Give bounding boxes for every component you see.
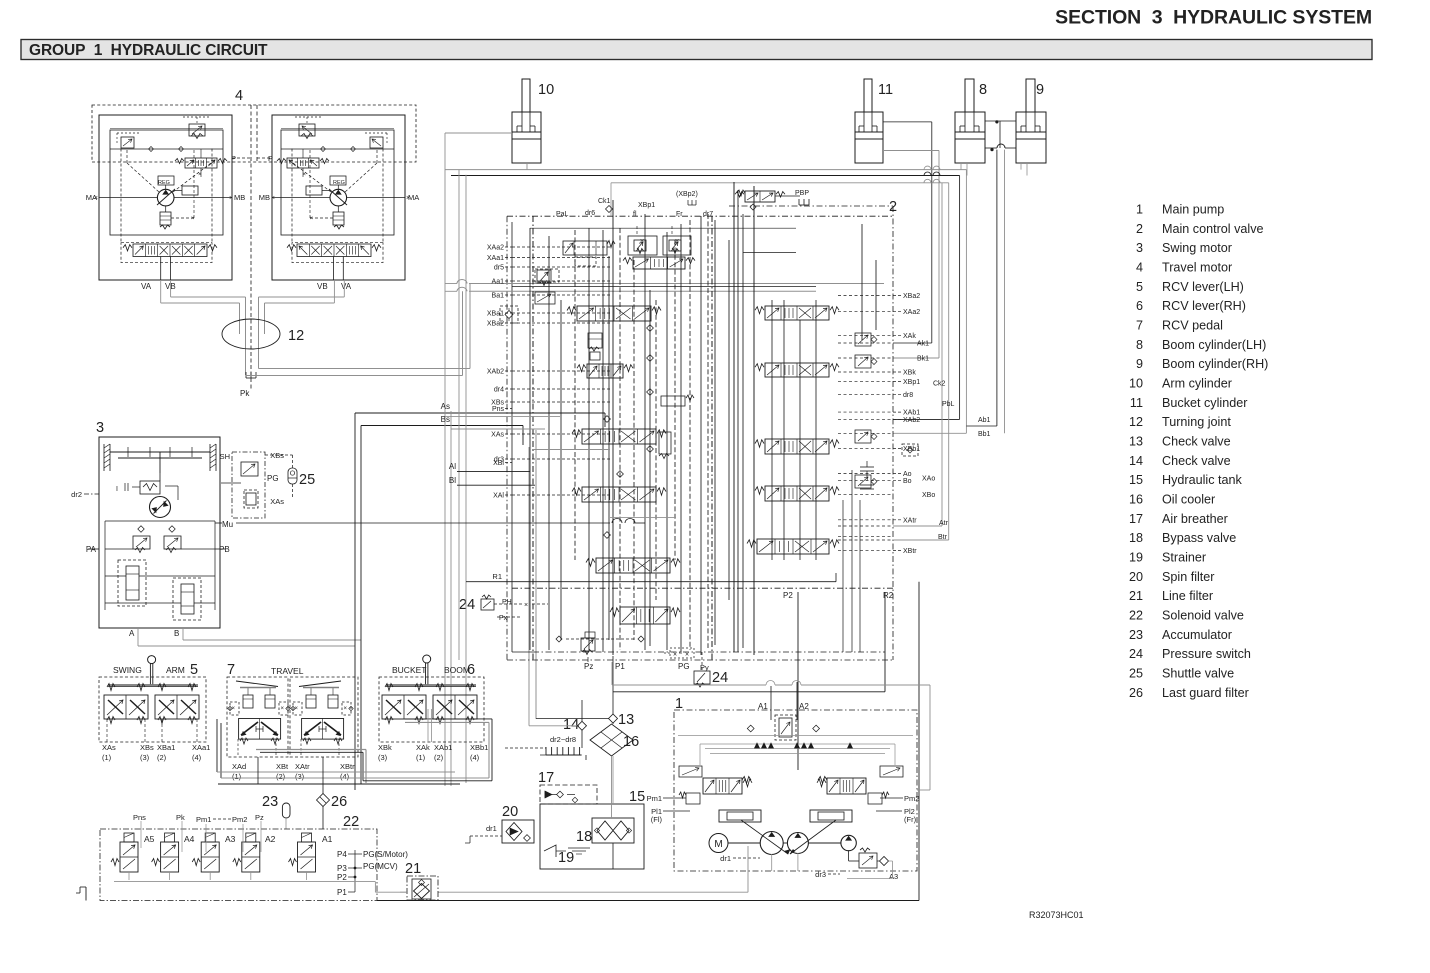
svg-text:Atr: Atr <box>939 520 949 527</box>
svg-text:MB: MB <box>234 193 245 202</box>
svg-text:5: 5 <box>1136 280 1143 294</box>
svg-text:24: 24 <box>712 670 728 686</box>
svg-text:(3): (3) <box>295 772 305 781</box>
svg-text:7: 7 <box>227 662 235 678</box>
svg-text:MA: MA <box>86 193 97 202</box>
svg-text:Last guard filter: Last guard filter <box>1162 686 1249 700</box>
svg-text:(3): (3) <box>378 753 388 762</box>
svg-text:XBb1: XBb1 <box>470 743 488 752</box>
svg-text:Oil cooler: Oil cooler <box>1162 492 1215 506</box>
svg-text:Pz: Pz <box>584 662 593 671</box>
svg-text:VA: VA <box>141 282 152 291</box>
svg-text:26: 26 <box>331 794 347 810</box>
svg-text:R32073HC01: R32073HC01 <box>1029 910 1084 920</box>
svg-text:As: As <box>441 402 450 411</box>
svg-text:I: I <box>116 486 118 493</box>
svg-text:(4): (4) <box>340 772 350 781</box>
svg-text:Strainer: Strainer <box>1162 550 1206 564</box>
svg-text:18: 18 <box>1129 531 1143 545</box>
svg-text:A1: A1 <box>322 834 333 844</box>
svg-text:×: × <box>675 238 679 245</box>
svg-text:Main control valve: Main control valve <box>1162 222 1264 236</box>
svg-text:REG: REG <box>333 180 345 186</box>
svg-text:XAk: XAk <box>903 333 916 340</box>
svg-text:XAtr: XAtr <box>903 517 917 524</box>
svg-text:SWING: SWING <box>113 665 142 675</box>
svg-text:4: 4 <box>1136 260 1143 274</box>
svg-text:fl: fl <box>633 211 637 218</box>
svg-text:P: P <box>268 154 273 163</box>
svg-text:23: 23 <box>1129 628 1143 642</box>
svg-text:XBl: XBl <box>493 460 504 467</box>
svg-text:Boom cylinder(RH): Boom cylinder(RH) <box>1162 357 1268 371</box>
svg-text:XBa2: XBa2 <box>903 293 920 300</box>
svg-text:XAb2: XAb2 <box>903 417 920 424</box>
svg-text:Solenoid valve: Solenoid valve <box>1162 608 1244 622</box>
svg-text:22: 22 <box>1129 608 1143 622</box>
svg-text:21: 21 <box>1129 589 1143 603</box>
svg-text:12: 12 <box>1129 415 1143 429</box>
svg-text:(4): (4) <box>470 753 480 762</box>
svg-text:Px: Px <box>499 615 508 622</box>
svg-text:24: 24 <box>459 597 475 613</box>
svg-text:XAl: XAl <box>493 493 504 500</box>
svg-text:15: 15 <box>629 789 645 805</box>
svg-text:Mu: Mu <box>222 520 233 529</box>
svg-text:Ck2: Ck2 <box>933 381 946 388</box>
svg-text:A3: A3 <box>889 872 898 881</box>
svg-text:Main pump: Main pump <box>1162 203 1224 217</box>
svg-text:25: 25 <box>1129 666 1143 680</box>
svg-text:Pm2: Pm2 <box>232 815 247 824</box>
svg-text:XAk: XAk <box>416 743 430 752</box>
svg-text:PbL: PbL <box>942 401 955 408</box>
svg-text:14: 14 <box>1129 454 1143 468</box>
svg-text:(Fr): (Fr) <box>904 815 917 824</box>
svg-text:Ak1: Ak1 <box>917 341 929 348</box>
svg-text:P4: P4 <box>337 850 347 859</box>
svg-text:26: 26 <box>1129 686 1143 700</box>
svg-text:P3: P3 <box>337 864 347 873</box>
svg-text:Pm1: Pm1 <box>196 815 211 824</box>
svg-text:BUCKET: BUCKET <box>392 665 426 675</box>
svg-text:BOOM: BOOM <box>444 665 470 675</box>
svg-text:XAa1: XAa1 <box>192 743 210 752</box>
svg-text:SECTION 3 HYDRAULIC SYSTEM: SECTION 3 HYDRAULIC SYSTEM <box>1055 7 1372 29</box>
svg-text:Pk: Pk <box>176 813 185 822</box>
svg-text:XBtr: XBtr <box>340 762 355 771</box>
svg-text:Hydraulic tank: Hydraulic tank <box>1162 473 1242 487</box>
svg-text:Ab1: Ab1 <box>978 417 991 424</box>
svg-text:XAs: XAs <box>491 432 504 439</box>
svg-text:19: 19 <box>1129 550 1143 564</box>
svg-text:Line filter: Line filter <box>1162 589 1213 603</box>
svg-text:A: A <box>129 629 135 638</box>
svg-text:Ck1: Ck1 <box>598 198 611 205</box>
svg-text:XAs: XAs <box>102 743 116 752</box>
svg-text:17: 17 <box>538 770 554 786</box>
svg-text:8: 8 <box>979 82 987 98</box>
svg-text:(3): (3) <box>140 753 150 762</box>
svg-text:Pressure switch: Pressure switch <box>1162 647 1251 661</box>
svg-text:XAs: XAs <box>270 497 284 506</box>
svg-text:P: P <box>231 154 236 163</box>
svg-text:PG: PG <box>267 474 279 483</box>
svg-text:XBa1: XBa1 <box>487 311 504 318</box>
svg-text:×: × <box>191 216 195 222</box>
svg-text:Ba1: Ba1 <box>492 293 505 300</box>
svg-text:16: 16 <box>623 734 639 750</box>
svg-text:XBp1: XBp1 <box>903 379 920 386</box>
svg-text:Pm2: Pm2 <box>904 794 919 803</box>
svg-text:dr8: dr8 <box>903 392 913 399</box>
svg-text:20: 20 <box>502 804 518 820</box>
svg-text:XBk: XBk <box>903 370 916 377</box>
svg-text:Fr: Fr <box>676 211 683 218</box>
svg-text:×: × <box>673 652 677 659</box>
svg-text:Pm1: Pm1 <box>647 794 662 803</box>
svg-text:(1): (1) <box>232 772 242 781</box>
svg-text:(1): (1) <box>416 753 426 762</box>
svg-text:×: × <box>229 195 233 202</box>
svg-text:×: × <box>685 652 689 659</box>
svg-text:22: 22 <box>343 814 359 830</box>
svg-text:XAo: XAo <box>922 475 935 482</box>
svg-text:9: 9 <box>1136 357 1143 371</box>
svg-text:dr7: dr7 <box>703 211 713 218</box>
svg-text:A2: A2 <box>799 702 809 711</box>
svg-text:19: 19 <box>558 850 574 866</box>
svg-text:12: 12 <box>288 328 304 344</box>
svg-text:GROUP 1 HYDRAULIC CIRCUIT: GROUP 1 HYDRAULIC CIRCUIT <box>29 42 268 59</box>
svg-text:A2: A2 <box>265 834 276 844</box>
svg-text:P1: P1 <box>615 662 625 671</box>
svg-text:PA: PA <box>86 545 97 554</box>
svg-text:XAtr: XAtr <box>295 762 310 771</box>
svg-text:Pns: Pns <box>133 813 146 822</box>
svg-text:dr1: dr1 <box>720 854 731 863</box>
svg-text:A1: A1 <box>758 702 768 711</box>
svg-text:MA: MA <box>408 193 419 202</box>
svg-text:A5: A5 <box>144 834 155 844</box>
svg-text:Btr: Btr <box>938 534 948 541</box>
svg-text:×: × <box>344 706 348 712</box>
svg-text:dr2~dr8: dr2~dr8 <box>550 735 576 744</box>
svg-text:Arm cylinder: Arm cylinder <box>1162 376 1232 390</box>
svg-text:8: 8 <box>1136 338 1143 352</box>
svg-text:XAb1: XAb1 <box>434 743 452 752</box>
svg-text:XAb1: XAb1 <box>903 410 920 417</box>
svg-text:Accumulator: Accumulator <box>1162 628 1232 642</box>
svg-text:XAa1: XAa1 <box>487 255 504 262</box>
svg-text:R2: R2 <box>883 591 894 600</box>
svg-text:3: 3 <box>96 420 104 436</box>
svg-text:Al: Al <box>449 462 456 471</box>
svg-text:Swing motor: Swing motor <box>1162 241 1232 255</box>
svg-text:PG(MCV): PG(MCV) <box>363 862 398 871</box>
svg-text:XAa2: XAa2 <box>903 309 920 316</box>
svg-text:Check valve: Check valve <box>1162 434 1231 448</box>
svg-text:TRAVEL: TRAVEL <box>271 666 304 676</box>
svg-text:Bk1: Bk1 <box>917 356 929 363</box>
svg-text:dr2: dr2 <box>71 490 82 499</box>
svg-text:(XBp2): (XBp2) <box>676 191 698 198</box>
svg-text:P2: P2 <box>337 873 347 882</box>
svg-text:dr3: dr3 <box>815 870 826 879</box>
svg-text:XBa2: XBa2 <box>487 321 504 328</box>
svg-text:17: 17 <box>1129 512 1143 526</box>
svg-text:Pk: Pk <box>240 389 250 398</box>
svg-text:(2): (2) <box>434 753 444 762</box>
svg-text:P1: P1 <box>337 888 347 897</box>
svg-text:Bucket cylinder: Bucket cylinder <box>1162 396 1247 410</box>
svg-text:REG: REG <box>158 180 170 186</box>
svg-text:B: B <box>174 629 179 638</box>
svg-text:ARM: ARM <box>166 665 185 675</box>
svg-text:×: × <box>271 195 275 202</box>
svg-text:Turning joint: Turning joint <box>1162 415 1231 429</box>
svg-text:4: 4 <box>235 88 243 104</box>
svg-text:Travel motor: Travel motor <box>1162 260 1232 274</box>
svg-text:7: 7 <box>1136 318 1143 332</box>
svg-text:A3: A3 <box>225 834 236 844</box>
svg-text:Ao: Ao <box>903 471 912 478</box>
svg-text:25: 25 <box>299 472 315 488</box>
svg-text:Spin filter: Spin filter <box>1162 570 1215 584</box>
svg-text:Bl: Bl <box>449 476 456 485</box>
svg-text:×: × <box>281 706 285 712</box>
svg-text:XBs: XBs <box>140 743 154 752</box>
svg-text:SH: SH <box>220 452 230 461</box>
svg-text:3: 3 <box>1136 241 1143 255</box>
svg-text:20: 20 <box>1129 570 1143 584</box>
svg-text:P2: P2 <box>783 591 793 600</box>
svg-text:16: 16 <box>1129 492 1143 506</box>
svg-text:1: 1 <box>1136 203 1143 217</box>
svg-text:Air breather: Air breather <box>1162 512 1228 526</box>
svg-text:23: 23 <box>262 794 278 810</box>
svg-text:Bb1: Bb1 <box>978 431 991 438</box>
svg-text:dr1: dr1 <box>486 824 497 833</box>
svg-text:Pz: Pz <box>255 813 264 822</box>
svg-text:XBtr: XBtr <box>903 548 917 555</box>
svg-text:dr4: dr4 <box>494 387 504 394</box>
svg-text:RCV lever(RH): RCV lever(RH) <box>1162 299 1246 313</box>
svg-text:Aa1: Aa1 <box>492 279 505 286</box>
svg-text:6: 6 <box>1136 299 1143 313</box>
svg-text:VA: VA <box>341 282 352 291</box>
svg-text:9: 9 <box>1036 82 1044 98</box>
svg-text:(Fl): (Fl) <box>651 815 663 824</box>
svg-text:×: × <box>524 602 528 609</box>
svg-text:XAa2: XAa2 <box>487 245 504 252</box>
svg-text:(1): (1) <box>102 753 112 762</box>
svg-text:21: 21 <box>405 861 421 877</box>
svg-text:PaL: PaL <box>556 211 569 218</box>
svg-text:A4: A4 <box>184 834 195 844</box>
svg-text:dr6: dr6 <box>585 210 595 217</box>
svg-text:11: 11 <box>878 82 893 98</box>
svg-text:(2): (2) <box>276 772 286 781</box>
svg-text:Bo: Bo <box>903 478 912 485</box>
svg-text:XBs: XBs <box>270 451 284 460</box>
svg-text:dr5: dr5 <box>494 265 504 272</box>
svg-text:M: M <box>714 839 722 850</box>
svg-text:PB: PB <box>219 545 230 554</box>
svg-text:R1: R1 <box>492 572 502 581</box>
svg-text:10: 10 <box>1129 376 1143 390</box>
svg-text:(4): (4) <box>192 753 202 762</box>
svg-text:×: × <box>640 238 644 245</box>
svg-text:10: 10 <box>538 82 554 98</box>
svg-text:Bypass valve: Bypass valve <box>1162 531 1236 545</box>
svg-text:XBk: XBk <box>378 743 392 752</box>
svg-text:×: × <box>302 172 306 178</box>
svg-text:18: 18 <box>576 829 592 845</box>
svg-text:XAd: XAd <box>232 762 246 771</box>
svg-text:MB: MB <box>259 193 270 202</box>
svg-text:×: × <box>309 216 313 222</box>
svg-text:PH: PH <box>502 599 512 606</box>
svg-text:Pns: Pns <box>492 406 505 413</box>
svg-text:14: 14 <box>563 717 579 733</box>
svg-text:13: 13 <box>1129 434 1143 448</box>
svg-text:XBt: XBt <box>276 762 289 771</box>
svg-text:PG: PG <box>678 662 690 671</box>
svg-text:15: 15 <box>1129 473 1143 487</box>
svg-text:XBo: XBo <box>922 492 935 499</box>
svg-text:24: 24 <box>1129 647 1143 661</box>
svg-text:XAb2: XAb2 <box>487 369 504 376</box>
svg-text:Boom cylinder(LH): Boom cylinder(LH) <box>1162 338 1266 352</box>
svg-text:Shuttle valve: Shuttle valve <box>1162 666 1234 680</box>
svg-text:2: 2 <box>1136 222 1143 236</box>
svg-text:5: 5 <box>190 662 198 678</box>
svg-text:RCV pedal: RCV pedal <box>1162 318 1223 332</box>
svg-text:×: × <box>198 172 202 178</box>
svg-text:Check valve: Check valve <box>1162 454 1231 468</box>
svg-text:RCV lever(LH): RCV lever(LH) <box>1162 280 1244 294</box>
svg-text:VB: VB <box>317 282 328 291</box>
svg-text:(2): (2) <box>157 753 167 762</box>
svg-text:PG(S/Motor): PG(S/Motor) <box>363 850 408 859</box>
svg-text:11: 11 <box>1130 396 1143 410</box>
svg-text:13: 13 <box>618 712 634 728</box>
svg-text:XBa1: XBa1 <box>157 743 175 752</box>
svg-text:XBp1: XBp1 <box>638 202 655 209</box>
